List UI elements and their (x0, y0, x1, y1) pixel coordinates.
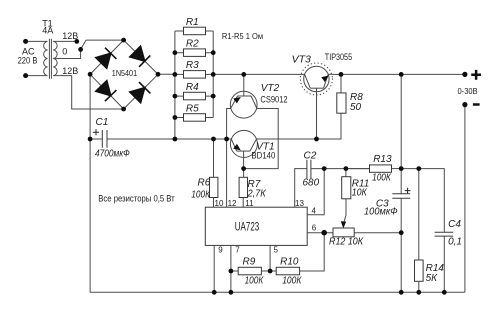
svg-text:12: 12 (228, 199, 237, 208)
bridge diode D4 bottom-right (130, 82, 151, 103)
svg-text:UA723: UA723 (235, 219, 260, 233)
node bank right R4 (211, 94, 216, 99)
node plus terminal (462, 72, 467, 77)
transformer T1 secondary winding (53, 41, 57, 75)
svg-text:R5: R5 (186, 103, 199, 114)
svg-text:2,7К: 2,7К (247, 189, 267, 200)
svg-text:9: 9 (218, 246, 223, 255)
node 12V tap (74, 39, 79, 44)
node bridge left (88, 72, 93, 77)
node 0 tap (78, 47, 83, 52)
output plus symbol (471, 70, 481, 80)
wire VT2 collector to VT1 base link (244, 109, 279, 169)
node bank left R3 (173, 72, 178, 77)
svg-text:10: 10 (215, 199, 224, 208)
wire VT1 collector to R8 bottom (257, 113, 342, 139)
capacitor C1 (102, 130, 107, 148)
svg-text:R1-R5 1 Ом: R1-R5 1 Ом (222, 31, 263, 41)
svg-text:100К: 100К (372, 173, 392, 184)
svg-text:C2: C2 (304, 151, 317, 162)
bridge diode D1 top-left (96, 48, 117, 68)
svg-text:12В: 12В (62, 66, 78, 76)
node C3 top (399, 72, 404, 77)
wire secondary 12V top tap (53, 40, 77, 42)
svg-text:R1: R1 (186, 17, 199, 28)
node bus pin9 (212, 290, 217, 295)
svg-text:4A: 4A (42, 26, 53, 36)
node bank right R2 (211, 50, 216, 55)
svg-text:1N5401: 1N5401 (112, 68, 138, 78)
potentiometer R12 (333, 228, 401, 237)
wire VT2 emitter to pin 12 column (227, 109, 231, 208)
svg-text:13: 13 (295, 199, 304, 208)
node pin12 bus (224, 137, 229, 142)
resistor R14 (415, 169, 424, 293)
svg-text:50: 50 (350, 102, 362, 113)
svg-text:12В: 12В (62, 31, 78, 41)
node bridge top (121, 38, 126, 43)
wire R6 to pin 10 (213, 198, 215, 207)
resistor R6 (210, 177, 218, 197)
resistor R13 (346, 165, 401, 172)
node R6 top (211, 137, 216, 142)
node VT2 base rail (241, 72, 246, 77)
resistor R5 (175, 114, 213, 122)
wire R13 node to R14 and C4 (401, 169, 444, 293)
wire pin 13 to C2 (295, 169, 307, 208)
potentiometer R12 wiper arrow (344, 199, 346, 224)
node bus pin7 (229, 290, 234, 295)
wire R6 top (213, 139, 215, 177)
wire AC input bottom (26, 75, 48, 77)
node AC terminal bottom (23, 73, 28, 78)
resistor R7 (239, 177, 247, 197)
svg-text:10К: 10К (352, 187, 368, 198)
capacitor C4 (435, 232, 454, 236)
ground bus (90, 291, 465, 293)
node bus C3 (399, 290, 404, 295)
svg-text:R9: R9 (243, 256, 256, 267)
wire pin 6 node down to R10 (300, 233, 325, 271)
svg-text:5: 5 (274, 246, 279, 255)
svg-text:680: 680 (303, 178, 320, 189)
node R14 top (416, 166, 421, 171)
svg-text:100К: 100К (191, 189, 211, 200)
node bank left R5 (173, 115, 178, 120)
svg-text:VT3: VT3 (292, 53, 311, 65)
transistor VT3 (300, 63, 332, 139)
svg-text:5К: 5К (426, 273, 439, 284)
wire main rail VT3 to plus terminal (328, 73, 465, 75)
svg-text:100К: 100К (245, 275, 265, 286)
resistor R4 (175, 92, 213, 100)
wire minus terminal down (464, 105, 466, 293)
resistor bank right rail (212, 31, 214, 118)
svg-text:100мкФ: 100мкФ (364, 206, 398, 217)
node AC terminal top (23, 39, 28, 44)
svg-text:220 В: 220 В (18, 56, 38, 66)
node pin 6 (321, 230, 327, 236)
transistor VT2 (230, 74, 257, 118)
node minus terminal (462, 102, 467, 107)
resistor R8 (337, 74, 346, 113)
node bridge right (156, 72, 161, 77)
svg-text:4700мкФ: 4700мкФ (95, 148, 130, 159)
svg-text:R13: R13 (373, 154, 392, 165)
node bank right R3 (211, 72, 216, 77)
svg-text:VT1: VT1 (256, 141, 274, 152)
wire VT1 base to R7 (243, 169, 245, 178)
IC UA723 box (205, 207, 307, 245)
wire secondary 12V bottom tap to bridge bottom (53, 76, 123, 109)
svg-text:0,1: 0,1 (448, 237, 462, 248)
capacitor C3 (392, 194, 410, 199)
svg-text:R4: R4 (186, 82, 199, 93)
wire switch to bridge top corner (86, 39, 124, 41)
svg-text:R3: R3 (186, 60, 199, 71)
svg-text:R6: R6 (198, 178, 211, 189)
resistor R1 (175, 27, 213, 35)
node C2 right (322, 166, 327, 171)
svg-text:CS9012: CS9012 (260, 94, 287, 104)
svg-text:0-30В: 0-30В (458, 87, 478, 96)
wire main rail bank to VT3 (213, 73, 304, 75)
svg-text:100К: 100К (282, 275, 302, 286)
node C1 left (88, 137, 93, 142)
wire pin 5 to R9/R10 node (269, 245, 271, 271)
resistor R2 (175, 49, 213, 57)
bridge diode D2 top-right (130, 46, 151, 67)
resistor R9 (231, 267, 270, 275)
node VT3 base (314, 137, 319, 142)
wire R7 to pin 11 (242, 198, 244, 207)
node bus C4 (442, 290, 447, 295)
svg-text:TIP3055: TIP3055 (325, 52, 352, 62)
node VT1 base R7 (241, 166, 246, 171)
wire negative rail vertical from bridge left corner (89, 74, 91, 292)
transformer T1 primary winding (44, 41, 48, 75)
svg-text:R12 10К: R12 10К (329, 237, 364, 248)
capacitor C2 (307, 160, 311, 179)
node R8 top (339, 72, 344, 77)
wire pin 7 to ground bus (230, 245, 232, 292)
svg-text:Все резисторы 0,5 Вт: Все резисторы 0,5 Вт (98, 194, 174, 204)
wire pin 6 to R12 (307, 232, 333, 234)
svg-text:7: 7 (235, 246, 240, 255)
svg-text:R2: R2 (186, 39, 199, 50)
node R11 R13 (344, 166, 349, 171)
resistor R11 (342, 169, 351, 199)
wire low bus C1 to VT1 emitter (90, 138, 231, 140)
bridge diamond wires (90, 40, 158, 109)
wire bridge right corner to shunt bank (158, 73, 175, 75)
wire pin 9 to ground bus (213, 245, 215, 292)
node R13 right C3 (399, 166, 404, 171)
resistor R3 (175, 71, 213, 79)
node bank left R4 (173, 94, 178, 99)
node bank left R2 (173, 50, 178, 55)
wire C3 column (400, 74, 402, 292)
node bridge bottom (121, 107, 126, 112)
svg-text:11: 11 (245, 199, 254, 208)
output minus symbol (473, 103, 480, 106)
transformer T1 core (49, 39, 51, 79)
svg-text:VT2: VT2 (261, 83, 280, 94)
node R12 right C3 (399, 230, 404, 235)
node R9 left (229, 269, 234, 274)
wire pin 4 (307, 169, 324, 215)
bridge diode D3 bottom-left (96, 81, 117, 102)
svg-text:C1: C1 (96, 117, 109, 128)
svg-text:0: 0 (62, 47, 67, 57)
resistor bank left rail (174, 31, 176, 139)
svg-text:C4: C4 (448, 219, 461, 230)
transistor VT1 (230, 130, 257, 168)
svg-text:6: 6 (312, 223, 317, 232)
node R9 R10 pin5 (268, 269, 273, 274)
node bank left bus (173, 137, 178, 142)
switch blade tap selector (81, 40, 86, 49)
wire secondary 0 tap (53, 49, 80, 58)
wire C2 to R11/R13 node (311, 168, 370, 170)
svg-text:4: 4 (312, 207, 317, 216)
node bus R14 (416, 290, 421, 295)
svg-text:R10: R10 (280, 256, 299, 267)
resistor R10 (270, 267, 300, 275)
wire AC input top (26, 40, 48, 42)
